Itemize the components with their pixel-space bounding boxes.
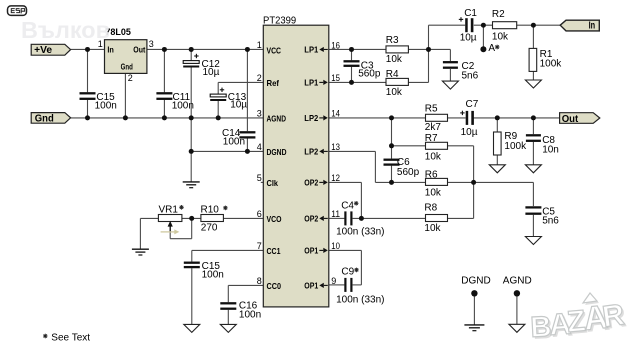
svg-text:10k: 10k <box>386 87 403 98</box>
svg-text:PT2399: PT2399 <box>263 14 296 26</box>
svg-text:Ref: Ref <box>267 78 280 88</box>
svg-text:DGND: DGND <box>461 275 490 286</box>
svg-text:VCO: VCO <box>267 214 282 224</box>
svg-text:AGND: AGND <box>503 275 532 286</box>
svg-text:100k: 100k <box>540 58 563 69</box>
svg-text:5n6: 5n6 <box>462 70 479 81</box>
svg-text:10: 10 <box>331 241 340 251</box>
svg-text:13: 13 <box>331 142 340 152</box>
svg-text:5n6: 5n6 <box>542 215 559 226</box>
svg-text:C7: C7 <box>466 99 479 110</box>
svg-text:CC1: CC1 <box>267 246 281 256</box>
svg-text:100n: 100n <box>172 101 194 112</box>
svg-text:C9: C9 <box>341 267 354 278</box>
svg-text:LP1: LP1 <box>304 77 318 87</box>
svg-text:VCC: VCC <box>267 45 282 55</box>
svg-text:Out: Out <box>562 114 579 125</box>
svg-text:R4: R4 <box>386 69 399 80</box>
svg-text:R10: R10 <box>201 205 220 216</box>
svg-text:10µ: 10µ <box>461 127 478 138</box>
svg-text:OP1: OP1 <box>304 280 318 290</box>
svg-text:2: 2 <box>257 73 262 83</box>
svg-text:10µ: 10µ <box>460 32 477 43</box>
svg-text:10µ: 10µ <box>230 99 247 110</box>
svg-text:6: 6 <box>257 209 262 219</box>
svg-text:100n: 100n <box>239 309 261 320</box>
svg-text:100n (33n): 100n (33n) <box>336 227 384 238</box>
svg-text:Gnd: Gnd <box>35 114 54 125</box>
svg-text:12: 12 <box>331 173 340 183</box>
svg-text:100n (33n): 100n (33n) <box>336 295 384 306</box>
svg-text:Вълков: Вълков <box>21 17 110 43</box>
svg-text:Out: Out <box>133 45 145 55</box>
svg-text:10µ: 10µ <box>203 67 220 78</box>
svg-text:10k: 10k <box>386 54 403 65</box>
svg-text:In: In <box>107 45 114 55</box>
svg-text:3: 3 <box>257 108 262 118</box>
svg-text:R6: R6 <box>425 170 438 181</box>
svg-text:9: 9 <box>331 276 336 286</box>
svg-text:OP2: OP2 <box>304 177 318 187</box>
svg-text:10k: 10k <box>492 32 509 43</box>
svg-text:LP1: LP1 <box>304 44 318 54</box>
svg-text:CC0: CC0 <box>267 281 282 291</box>
svg-text:5: 5 <box>257 173 262 183</box>
svg-text:C1: C1 <box>464 8 477 19</box>
svg-text:R8: R8 <box>424 203 437 214</box>
svg-text:100n: 100n <box>223 136 245 147</box>
svg-text:2: 2 <box>128 73 133 83</box>
svg-text:OP2: OP2 <box>304 213 318 223</box>
svg-text:16: 16 <box>331 40 340 50</box>
svg-text:100n: 100n <box>202 270 224 281</box>
svg-text:270: 270 <box>201 223 218 234</box>
svg-text:+Ve: +Ve <box>34 45 52 56</box>
svg-text:15: 15 <box>331 73 340 83</box>
svg-text:R3: R3 <box>386 35 399 46</box>
svg-text:Gnd: Gnd <box>121 62 133 72</box>
svg-text:Clk: Clk <box>267 178 279 188</box>
svg-text:100n: 100n <box>95 101 117 112</box>
svg-text:DGND: DGND <box>267 147 287 157</box>
svg-text:14: 14 <box>331 109 340 119</box>
svg-text:8: 8 <box>257 276 262 286</box>
svg-text:C4: C4 <box>341 200 354 211</box>
svg-text:LP2: LP2 <box>304 146 318 156</box>
svg-text:See Text: See Text <box>51 332 90 343</box>
svg-text:R5: R5 <box>425 104 438 115</box>
svg-text:7: 7 <box>257 241 262 251</box>
svg-text:10k: 10k <box>425 188 442 199</box>
svg-text:10k: 10k <box>425 151 442 162</box>
svg-text:VR1: VR1 <box>159 205 179 216</box>
svg-text:R2: R2 <box>492 9 505 20</box>
svg-text:LP2: LP2 <box>304 113 318 123</box>
svg-text:3: 3 <box>149 39 154 49</box>
svg-text:R7: R7 <box>425 133 438 144</box>
svg-text:10n: 10n <box>542 144 559 155</box>
svg-text:1: 1 <box>257 40 262 50</box>
svg-text:In: In <box>589 21 596 32</box>
svg-text:11: 11 <box>331 209 340 219</box>
svg-text:560p: 560p <box>358 69 381 80</box>
svg-text:AGND: AGND <box>267 114 287 124</box>
svg-text:4: 4 <box>257 142 262 152</box>
svg-text:10k: 10k <box>424 223 441 234</box>
svg-text:OP1: OP1 <box>304 245 318 255</box>
svg-text:560p: 560p <box>397 167 420 178</box>
svg-text:100k: 100k <box>504 141 527 152</box>
svg-text:A: A <box>488 43 495 54</box>
svg-text:2k7: 2k7 <box>425 122 442 133</box>
